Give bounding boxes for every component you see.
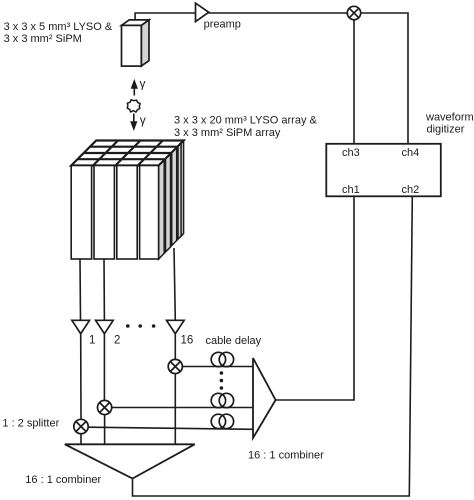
cable delay coil 2 bbox=[211, 393, 233, 407]
svg-text:ch4: ch4 bbox=[402, 147, 420, 159]
svg-text:1 : 2 splitter: 1 : 2 splitter bbox=[2, 418, 59, 430]
wire: preamp 16 down to splitter 16 bbox=[174, 334, 176, 360]
top 1:2 splitter (circle-X) S0 bbox=[347, 6, 360, 19]
single-pixel LYSO/SiPM detector D1 bbox=[122, 20, 150, 66]
label waveform digitizer bbox=[425, 112, 474, 136]
wire: splitter 2 down to bottom combiner bbox=[104, 415, 106, 445]
svg-text:digitizer: digitizer bbox=[427, 124, 465, 136]
wire: splitter 16 to delay line 16 bbox=[182, 366, 253, 368]
svg-text:16 : 1 combiner: 16 : 1 combiner bbox=[248, 450, 324, 462]
labels ch1-ch4 bbox=[342, 147, 419, 196]
wire: crystal 1 to preamp 1 bbox=[79, 259, 82, 320]
1:2 splitter 16 (circle-X) bbox=[168, 359, 182, 373]
wire: bottom combiner to ch2 bbox=[133, 196, 413, 496]
wire: preamp 1 down to splitter 1 bbox=[80, 334, 82, 420]
gamma down arrow bbox=[130, 114, 137, 132]
svg-text:γ: γ bbox=[140, 113, 146, 127]
svg-text:waveform: waveform bbox=[425, 112, 474, 124]
wire: splitter 16 down to bottom combiner bbox=[174, 374, 176, 445]
preamp 1 bbox=[72, 320, 90, 333]
positron source bbox=[127, 100, 140, 112]
LYSO/SiPM 4x4 array bbox=[71, 141, 183, 260]
bottom 16:1 combiner bbox=[65, 444, 195, 478]
svg-text:3 x 3 x 20 mm³ LYSO array &: 3 x 3 x 20 mm³ LYSO array & bbox=[174, 115, 318, 127]
svg-text:ch3: ch3 bbox=[342, 147, 360, 159]
wire: splitter 1 to delay line 1 bbox=[88, 427, 253, 429]
label: LYSO array bbox=[174, 115, 318, 140]
svg-text:γ: γ bbox=[140, 77, 146, 91]
preamp 16 bbox=[167, 320, 185, 333]
svg-text:2: 2 bbox=[114, 335, 120, 347]
vertical ellipsis dots between delay coils bbox=[220, 371, 224, 390]
wire: preamp 2 down to splitter 2 bbox=[103, 334, 105, 401]
cable delay coil 1 bbox=[211, 414, 233, 428]
ellipsis dots between preamps bbox=[126, 324, 155, 328]
wire: splitter to ch4 bbox=[361, 13, 408, 144]
front face: 4 crystal slabs bbox=[71, 166, 158, 260]
wire: splitter to ch3 bbox=[353, 20, 355, 144]
gamma up arrow bbox=[131, 79, 138, 96]
wire: splitter 2 to delay line 2 bbox=[112, 407, 253, 409]
1:2 splitter 2 (circle-X) bbox=[98, 400, 112, 414]
wire: crystal 2 to preamp 2 bbox=[103, 259, 105, 320]
wire: splitter 1 down to bottom combiner bbox=[80, 434, 82, 445]
svg-text:ch1: ch1 bbox=[342, 184, 360, 196]
svg-text:1: 1 bbox=[89, 335, 95, 347]
svg-text:3 x 3 mm² SiPM: 3 x 3 mm² SiPM bbox=[4, 33, 82, 45]
preamp U1 bbox=[196, 3, 209, 22]
svg-text:cable delay: cable delay bbox=[206, 335, 262, 347]
wire: preamp to top splitter bbox=[209, 12, 348, 14]
svg-text:16: 16 bbox=[181, 335, 194, 347]
wire: right combiner to ch1 bbox=[276, 196, 354, 400]
right face (4 crystal layers, shaded) bbox=[159, 160, 165, 259]
waveform digitizer box bbox=[326, 144, 441, 197]
wire: detector to preamp bbox=[135, 13, 195, 20]
svg-text:preamp: preamp bbox=[204, 19, 241, 31]
svg-text:ch2: ch2 bbox=[402, 184, 420, 196]
cable delay coil 16 bbox=[211, 352, 233, 366]
svg-text:3 x 3 mm² SiPM array: 3 x 3 mm² SiPM array bbox=[174, 127, 281, 139]
label: single-pixel detector bbox=[4, 21, 113, 45]
top face 4x4 grid bbox=[71, 141, 183, 166]
preamp 2 bbox=[96, 320, 114, 333]
wire: crystal 16 to preamp 16 bbox=[174, 248, 175, 320]
1:2 splitter 1 (circle-X) bbox=[74, 419, 88, 433]
svg-text:16 : 1 combiner: 16 : 1 combiner bbox=[25, 474, 101, 486]
right 16:1 combiner bbox=[253, 358, 276, 438]
svg-text:3 x 3 x 5 mm³ LYSO &: 3 x 3 x 5 mm³ LYSO & bbox=[4, 21, 113, 33]
